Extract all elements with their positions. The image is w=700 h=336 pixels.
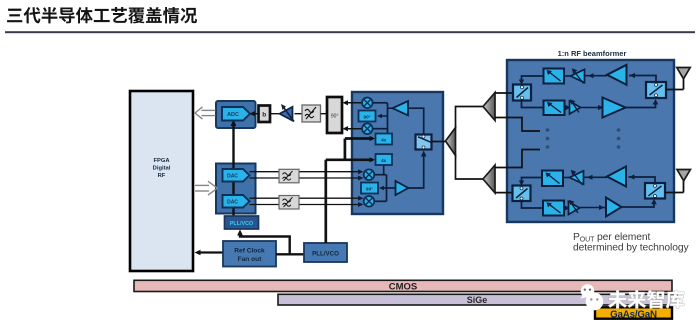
svg-text:b: b bbox=[262, 112, 266, 119]
Ref Clock Fan out box bbox=[223, 241, 276, 267]
ADC A1 bbox=[222, 107, 250, 121]
BF wire D2-E2 bbox=[565, 107, 571, 109]
BF wire E4-F4 bbox=[580, 207, 607, 209]
90deg hybrid box bbox=[327, 97, 342, 133]
ref clock wire to FPGA bbox=[197, 251, 223, 253]
BF wire switchB top to row3 bbox=[522, 178, 543, 185]
svg-text:Ref Clock: Ref Clock bbox=[234, 248, 265, 255]
BF wire F4 to switchG bottom bbox=[622, 201, 655, 208]
SiGe bar bbox=[278, 294, 677, 305]
BF wire switchB bottom to row4 bbox=[522, 201, 544, 208]
PLL/VCO under DAC bbox=[225, 216, 259, 229]
BF big amp F2 bbox=[603, 98, 626, 118]
wire splitter up bbox=[456, 107, 484, 129]
BF big amp F3 bbox=[607, 167, 626, 187]
BF wire switchC top to F1 bbox=[629, 76, 656, 83]
TX vertical wire bbox=[374, 175, 395, 202]
splitter top secondary bbox=[483, 93, 495, 121]
svg-text:GaAs/GaN: GaAs/GaN bbox=[610, 309, 657, 320]
BF switch A bbox=[513, 85, 531, 101]
wire switch to main splitter bbox=[432, 141, 448, 143]
svg-text:PLL/VCO: PLL/VCO bbox=[230, 221, 253, 227]
svg-text:RF: RF bbox=[158, 173, 166, 179]
BF wire switchG top to F3 bbox=[629, 177, 656, 183]
svg-text:Digital: Digital bbox=[153, 166, 171, 172]
Pout caption bbox=[573, 232, 689, 254]
svg-text:DAC: DAC bbox=[227, 200, 238, 206]
BF small amp E3 bbox=[570, 171, 584, 184]
wire b to VGA bbox=[270, 113, 279, 115]
svg-text:SiGe: SiGe bbox=[467, 295, 488, 305]
svg-text:90°: 90° bbox=[366, 186, 373, 191]
svg-text:PLL/VCO: PLL/VCO bbox=[312, 251, 339, 258]
DAC container bbox=[216, 164, 256, 214]
svg-text:4x: 4x bbox=[381, 158, 387, 163]
BF switch C bbox=[646, 82, 666, 98]
watermark icon bbox=[581, 284, 604, 311]
svg-text:Fan out: Fan out bbox=[238, 256, 263, 263]
title 三代半导体工艺覆盖情况 bbox=[7, 7, 197, 23]
BF phase shifter D1 bbox=[544, 69, 565, 84]
svg-text:ADC: ADC bbox=[227, 112, 239, 118]
VGA amplifier bbox=[280, 104, 295, 122]
BF wire D3-E3 bbox=[563, 177, 570, 179]
wire mixer M1 out to hybrid bbox=[344, 102, 362, 104]
ADC container bbox=[216, 101, 256, 128]
wire TX amp to switch bbox=[408, 153, 423, 188]
feed wire to top switch bbox=[495, 92, 514, 94]
BF wire E2-F2 bbox=[581, 107, 603, 109]
svg-text:CMOS: CMOS bbox=[389, 281, 418, 292]
BF big amp F1 bbox=[607, 65, 627, 85]
hollow arrow FPGA to DAC bbox=[195, 181, 218, 195]
mixer M2 bbox=[362, 123, 373, 134]
TX filter Q bbox=[279, 196, 299, 210]
TX 4x to mixer stub bbox=[383, 165, 385, 175]
BF small amp E4 bbox=[569, 202, 580, 215]
BF wire F2 to switchC bottom bbox=[626, 101, 656, 108]
wire VGA to filter bbox=[295, 113, 303, 115]
dots column left bbox=[546, 128, 550, 149]
main splitter bbox=[446, 128, 456, 156]
TX 90deg box bbox=[361, 183, 378, 194]
BF phase shifter D3 bbox=[542, 171, 563, 187]
T/R switch S0 bbox=[416, 135, 432, 150]
BF wire E1-F1 bbox=[585, 75, 608, 77]
TX 4x multiplier box bbox=[376, 154, 393, 165]
svg-text:90°: 90° bbox=[364, 114, 371, 119]
FPGA U1 bbox=[130, 91, 193, 271]
clock wire PLL/VCO up to transceiver bbox=[326, 139, 373, 244]
RX 4x multiplier box bbox=[376, 134, 393, 145]
wire b box to ADC bbox=[252, 113, 259, 115]
beamformer block bbox=[507, 60, 674, 222]
ref clock branch up to DAC PLL bbox=[240, 232, 290, 254]
b box bbox=[259, 106, 271, 123]
svg-text:DAC: DAC bbox=[227, 174, 238, 180]
TX filter I bbox=[279, 169, 299, 183]
svg-text:FPGA: FPGA bbox=[153, 158, 170, 164]
mixer M4 bbox=[364, 196, 375, 207]
RX filter bbox=[302, 105, 321, 122]
feed wire to bottom switch bbox=[495, 192, 513, 194]
BF small amp E1 bbox=[571, 69, 585, 82]
DAC D1 pentagon bbox=[223, 169, 250, 182]
wire RX amp input from switch bbox=[408, 108, 424, 134]
svg-text:determined by technology: determined by technology bbox=[573, 243, 689, 254]
watermark text 未来智库 bbox=[608, 290, 684, 308]
stub wire to hidden rows top bbox=[495, 118, 540, 132]
BF phase shifter D4 bbox=[543, 201, 564, 216]
mixer M1 bbox=[362, 98, 373, 109]
BF wire D1-E1 bbox=[564, 75, 571, 77]
wire mixer M2 out to hybrid bbox=[344, 128, 362, 130]
ref clock wire to PLL/VCO right bbox=[276, 253, 304, 255]
DAC I pair wires bbox=[250, 172, 361, 178]
antenna top bbox=[666, 68, 690, 90]
LO 90deg box bbox=[359, 111, 376, 122]
hollow arrow ADC to FPGA bbox=[195, 107, 216, 119]
arrow into LO 90 box bbox=[379, 115, 388, 117]
BF switch B bbox=[513, 186, 531, 202]
CMOS bar bbox=[134, 280, 672, 292]
svg-text:1:n RF beamformer: 1:n RF beamformer bbox=[558, 49, 627, 58]
TX amplifier bbox=[396, 181, 409, 195]
wire filter to 90deg hybrid bbox=[321, 113, 328, 115]
BF small amp E2 bbox=[570, 101, 581, 114]
clock wire PLL to ADC bbox=[232, 123, 234, 216]
BF wire D4-E4 bbox=[564, 207, 569, 209]
RX RF vertical wire bbox=[373, 103, 388, 134]
dots column right bbox=[617, 128, 621, 149]
BF big amp F4 bbox=[606, 198, 622, 217]
GaAs/GaN bar bbox=[595, 307, 672, 320]
wire splitter down bbox=[456, 155, 484, 180]
BF wire switchA top to row1 bbox=[522, 76, 544, 83]
antenna bottom bbox=[665, 170, 690, 193]
splitter bottom secondary bbox=[483, 165, 495, 193]
title underline bbox=[5, 31, 695, 33]
DAC Q pair wires bbox=[250, 198, 361, 204]
stub wire to hidden rows bottom bbox=[495, 150, 540, 168]
mixer M3 bbox=[364, 169, 375, 180]
DAC D2 pentagon bbox=[223, 195, 250, 208]
svg-text:90°: 90° bbox=[331, 114, 339, 120]
BF phase shifter D2 bbox=[544, 101, 565, 116]
RX amplifier bbox=[388, 101, 409, 115]
PLL/VCO bottom box bbox=[304, 243, 347, 262]
BF wire switchA bottom to row2 bbox=[522, 101, 544, 108]
transceiver block bbox=[352, 92, 443, 214]
BF wire E3-F3 bbox=[584, 176, 608, 178]
BF switch G bbox=[645, 183, 665, 199]
svg-text:4x: 4x bbox=[381, 137, 387, 142]
